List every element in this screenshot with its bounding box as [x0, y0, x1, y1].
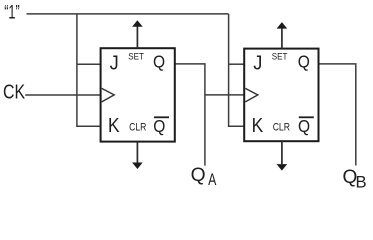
flip-flop U1 body: [101, 48, 175, 141]
svg-text:J: J: [253, 52, 262, 75]
node: QB output label: [343, 167, 367, 191]
CLR pull-down arrow U2: [277, 141, 288, 170]
svg-text:CLR: CLR: [273, 122, 291, 134]
pin label Q-bar (U1): [153, 116, 169, 136]
SET pull-up arrow U2: [277, 22, 288, 48]
wire: CK input to clock of U1: [25, 94, 100, 96]
svg-text:SET: SET: [272, 52, 288, 63]
wire: J1 input stub: [77, 63, 101, 65]
svg-text:B: B: [356, 173, 367, 192]
svg-text:Q: Q: [298, 116, 310, 136]
clock input triangle U2: [245, 88, 257, 102]
pin label Q-bar (U2): [298, 116, 314, 136]
svg-text:Q: Q: [191, 164, 206, 186]
svg-text:“1”: “1”: [4, 3, 19, 24]
wire: drop from rail to J1/K1: [77, 14, 101, 126]
flip-flop U2 body: [244, 49, 318, 142]
wire: "1" rail top horizontal: [27, 13, 229, 15]
svg-text:K: K: [108, 114, 120, 137]
wire: Q2 output down to QB: [318, 64, 356, 166]
node: QA output label: [191, 164, 217, 189]
svg-text:SET: SET: [128, 52, 144, 63]
wire: J2 input stub: [229, 63, 245, 65]
wire: Q1 output down to QA: [175, 64, 205, 166]
wire: QA node to clock of U2: [205, 94, 244, 96]
svg-text:Q: Q: [153, 51, 165, 71]
clock input triangle U1: [102, 88, 115, 102]
wire: drop from rail to J2/K2: [229, 14, 245, 126]
svg-text:Q: Q: [153, 116, 165, 136]
svg-text:J: J: [110, 52, 119, 75]
svg-text:Q: Q: [298, 51, 310, 71]
svg-text:CLR: CLR: [129, 122, 147, 134]
svg-text:K: K: [252, 114, 264, 137]
SET pull-up arrow U1: [132, 20, 143, 48]
svg-text:CK: CK: [3, 81, 25, 104]
CLR pull-down arrow U1: [132, 142, 143, 169]
svg-text:A: A: [208, 170, 217, 189]
